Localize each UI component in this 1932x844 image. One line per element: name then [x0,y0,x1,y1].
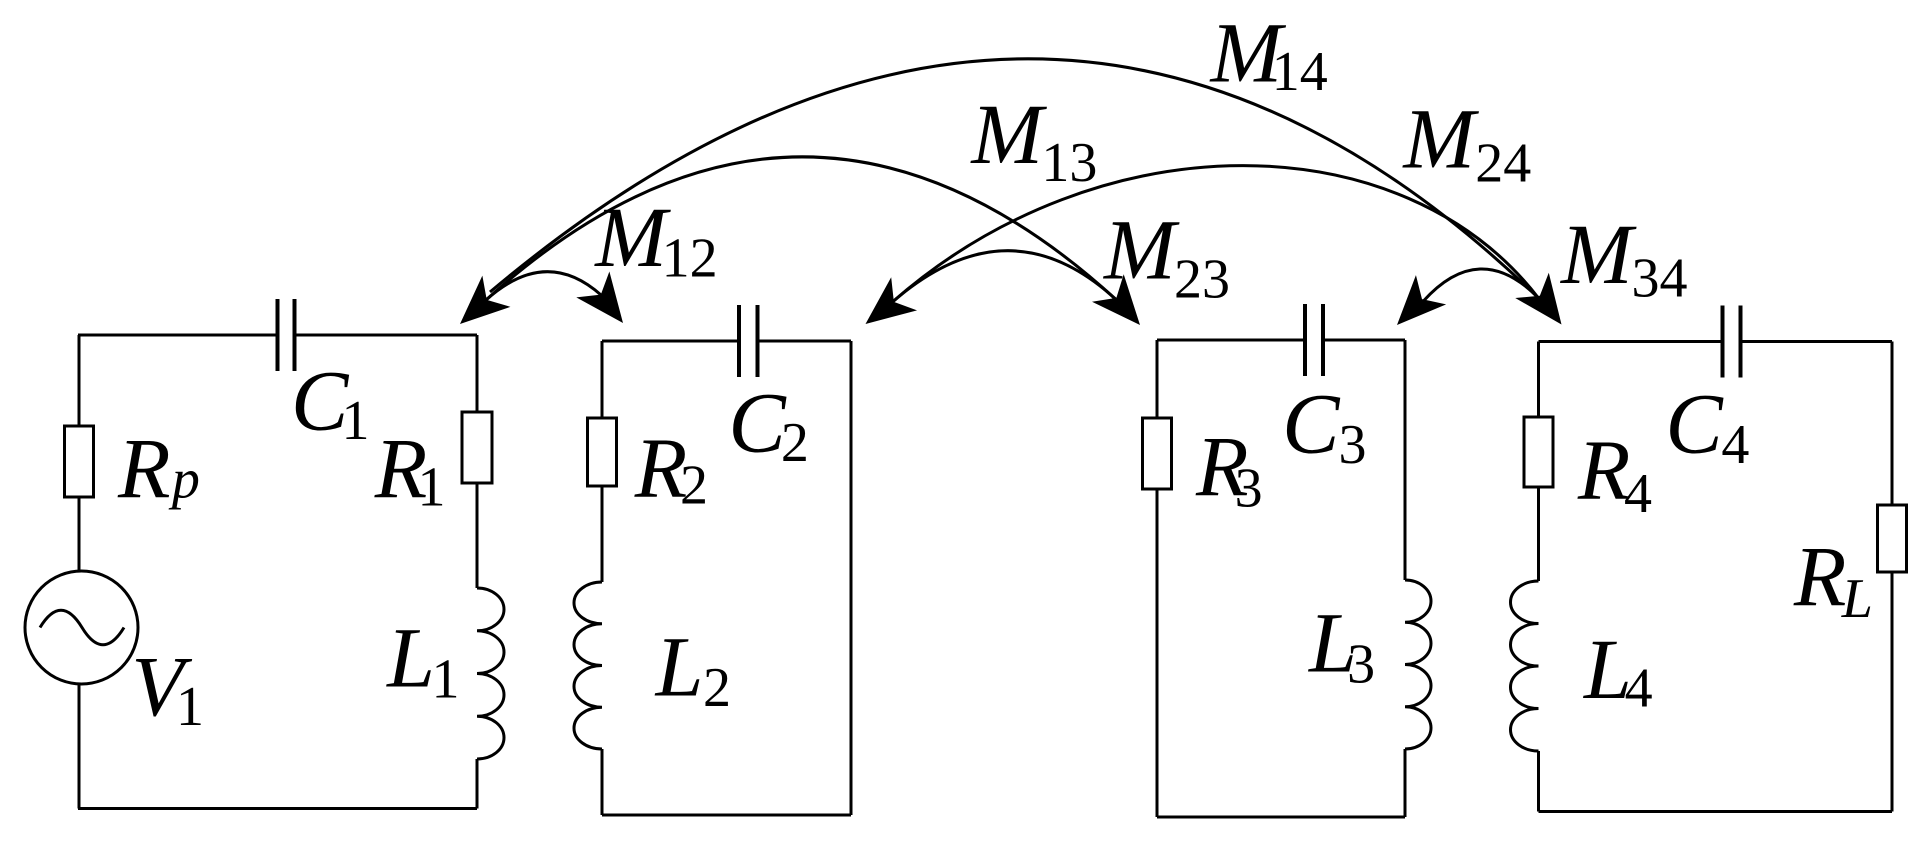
capacitor C4 [1723,306,1741,378]
label L3 [1307,595,1375,696]
wire loop1 top [78,334,477,337]
label R3 [1195,418,1263,520]
label M24 [1401,91,1531,195]
svg-text:3: 3 [1235,458,1263,520]
svg-text:C: C [1282,375,1341,471]
arrowhead M34 left [1382,275,1446,339]
svg-text:M: M [593,189,671,285]
capacitor C2 [739,305,758,377]
capacitor C1 [278,299,295,371]
svg-text:13: 13 [1041,132,1097,194]
label R2 [634,419,708,516]
arrowhead at loop4 corner (M34 M24 M14) [1515,273,1578,337]
wire loop3 left [1156,340,1159,817]
svg-text:24: 24 [1475,133,1531,195]
svg-text:23: 23 [1174,249,1230,311]
resistor R2 [588,418,617,486]
svg-text:M: M [969,86,1047,182]
inductor L2 [574,582,602,749]
svg-text:2: 2 [680,454,708,516]
svg-text:R: R [117,420,171,516]
wire loop1 left [78,335,81,809]
label M14 [1209,5,1328,104]
svg-text:14: 14 [1272,41,1328,103]
wire loop3 top [1157,339,1405,342]
label C3 [1282,375,1366,476]
arrowhead M23 right (M23 M13) [1092,274,1156,339]
label M12 [593,189,717,290]
wire coupling arc M23 [893,251,1116,302]
wire loop1 right [476,335,479,809]
wire loop2 top [602,340,851,343]
wire coupling arc M24 [893,166,1538,302]
svg-text:1: 1 [342,390,370,452]
wire loop4 right [1891,342,1894,812]
wire loop4 top [1539,340,1893,343]
arrowhead M23 left (M23 M24) [853,277,917,340]
wire coupling arc M13 [486,157,1116,300]
wire loop1 bottom [78,807,477,810]
svg-text:L: L [385,609,435,705]
inductor L1 [477,588,504,759]
resistor R3 [1143,418,1172,489]
resistor RL [1878,505,1907,572]
arrowhead M12 right [576,271,639,335]
svg-text:1: 1 [176,676,204,738]
svg-text:M: M [1401,91,1479,187]
svg-text:4: 4 [1624,463,1652,525]
label Rp [117,420,200,516]
svg-text:R: R [1577,422,1631,518]
svg-text:C: C [1665,376,1724,472]
resistor R4 [1524,417,1553,487]
wire coupling arc M12 [486,272,601,300]
capacitor C3 [1305,304,1323,376]
svg-text:L: L [1841,568,1873,630]
svg-text:2: 2 [781,412,809,474]
wire loop2 left [601,341,604,815]
inductor L4 [1511,581,1539,751]
label RL [1793,528,1873,630]
wire loop2 right [850,341,853,815]
svg-text:L: L [654,619,704,715]
svg-text:4: 4 [1721,414,1749,476]
svg-text:4: 4 [1625,658,1653,720]
label M23 [1102,202,1230,311]
wire loop4 bottom [1539,810,1893,813]
svg-text:3: 3 [1339,414,1367,476]
label C2 [728,374,809,474]
svg-text:2: 2 [703,657,731,719]
arrowhead at loop1 corner (M12 M13 M14) [446,276,511,340]
svg-text:M: M [1102,202,1180,298]
label L2 [654,619,731,720]
resistor Rp [65,426,94,497]
wire loop3 bottom [1157,816,1405,819]
label R1 [374,420,446,519]
wire loop3 right [1404,340,1407,817]
source V1 [25,571,138,684]
svg-text:p: p [168,448,200,510]
svg-text:34: 34 [1632,248,1688,310]
svg-text:M: M [1559,206,1637,302]
label R4 [1577,422,1652,525]
wire coupling arc M34 [1423,269,1538,302]
svg-text:1: 1 [418,457,446,519]
inductor L3 [1405,580,1431,749]
wire coupling arc M14 [490,59,1538,298]
wire loop4 left [1537,342,1540,812]
label C4 [1665,376,1749,476]
label L4 [1582,621,1653,720]
svg-text:C: C [728,374,787,470]
label V1 [131,638,204,738]
wire loop2 bottom [602,814,851,817]
svg-text:3: 3 [1347,634,1375,696]
resistor R1 [462,412,492,483]
label M13 [969,86,1097,194]
label L1 [385,609,459,710]
svg-text:1: 1 [432,649,460,711]
label M34 [1559,206,1688,310]
svg-text:R: R [1793,528,1847,624]
label C1 [291,352,370,452]
svg-text:12: 12 [662,228,718,290]
